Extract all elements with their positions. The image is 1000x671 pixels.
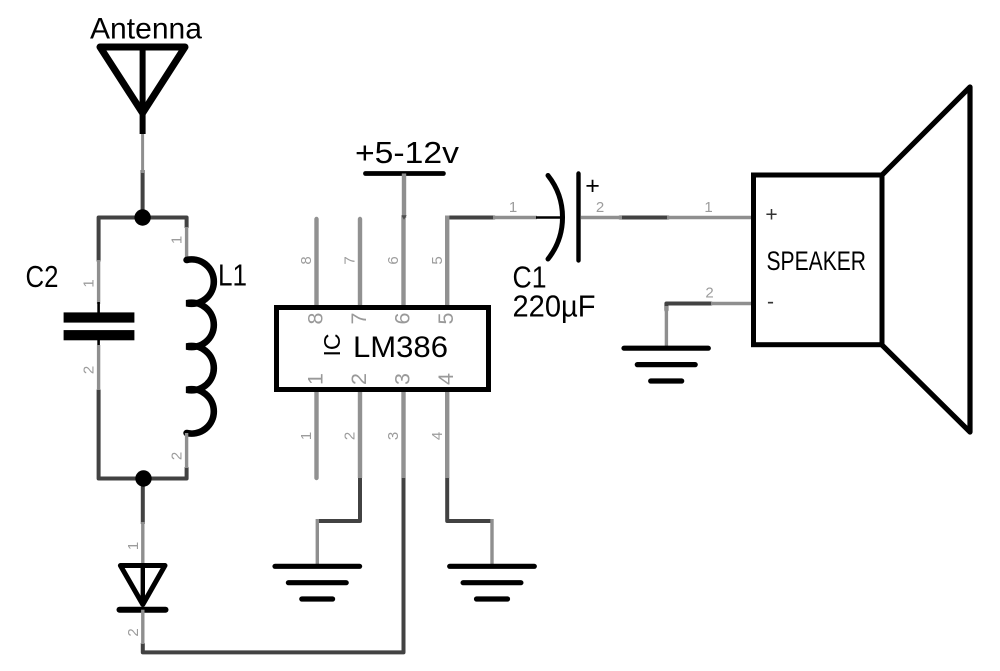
wire bottom bus (C2 bottom, junction, L1 bottom) (99, 390, 187, 479)
wire junction to diode (141, 479, 145, 525)
IC U1 LM386 (277, 216, 489, 479)
speaker LS1 (667, 87, 970, 432)
svg-text:4: 4 (434, 373, 458, 385)
pin 2 leg (141, 610, 144, 644)
wire IC pin5 to C1 (447, 216, 494, 220)
svg-text:1: 1 (704, 199, 712, 216)
pin 2 leg (711, 302, 753, 305)
curved plate (548, 176, 563, 260)
svg-text:3: 3 (390, 373, 414, 385)
svg-text:2: 2 (342, 432, 359, 440)
svg-text:8: 8 (303, 312, 327, 324)
diode D1 (120, 522, 166, 644)
node top junction (134, 209, 150, 225)
wire speaker minus to ground G3 (666, 304, 711, 311)
horn (882, 87, 970, 432)
pin 2 leg (185, 433, 188, 468)
svg-text:L1: L1 (218, 258, 247, 293)
wire IC pin2 to ground G1 (317, 477, 360, 521)
svg-text:2: 2 (125, 628, 142, 636)
svg-text:1: 1 (303, 373, 327, 385)
node bottom junction (135, 470, 151, 486)
pin 1 leg (493, 216, 537, 219)
IC body (277, 308, 489, 390)
svg-text:4: 4 (429, 432, 446, 440)
svg-text:1: 1 (298, 432, 315, 440)
svg-text:6: 6 (385, 256, 402, 264)
svg-text:8: 8 (298, 256, 315, 264)
pin 1 stub (314, 392, 318, 478)
ground G3 (624, 306, 708, 381)
svg-text:1: 1 (125, 542, 142, 550)
svg-text:-: - (767, 291, 774, 314)
ground G1 (275, 519, 360, 599)
svg-text:2: 2 (596, 199, 604, 216)
body (754, 175, 883, 345)
svg-text:IC: IC (319, 334, 345, 357)
svg-text:7: 7 (342, 256, 359, 264)
capacitor C1 220uF (493, 172, 622, 324)
svg-text:2: 2 (81, 366, 98, 374)
svg-text:2: 2 (347, 373, 371, 385)
svg-text:+5-12v: +5-12v (355, 135, 460, 170)
inductor L1 (169, 227, 247, 468)
svg-text:1: 1 (81, 279, 98, 287)
svg-text:Antenna: Antenna (90, 13, 202, 46)
pin 4 stub (445, 392, 449, 478)
svg-text:LM386: LM386 (353, 331, 448, 364)
pin 5 stub (445, 216, 449, 307)
wire C1 to speaker plus (620, 216, 668, 220)
straight plate (576, 174, 580, 261)
svg-text:7: 7 (347, 313, 371, 325)
svg-text:SPEAKER: SPEAKER (767, 246, 867, 276)
svg-text:220µF: 220µF (513, 289, 596, 324)
pin 2 leg (581, 216, 623, 219)
ground G2 (450, 519, 535, 599)
svg-text:C2: C2 (26, 259, 59, 294)
pin 8 stub (314, 219, 318, 306)
svg-text:+: + (765, 204, 777, 227)
capacitor C2 (26, 259, 135, 390)
svg-text:1: 1 (169, 236, 186, 244)
power +5-12v (355, 135, 460, 220)
pin 1 leg (185, 227, 188, 261)
svg-text:2: 2 (705, 284, 713, 301)
wire diode bottom to IC pin3 (143, 477, 404, 652)
svg-text:5: 5 (434, 312, 458, 324)
pin 2 stub (358, 392, 362, 478)
wire antenna to top junction (141, 170, 145, 215)
svg-text:3: 3 (385, 432, 402, 440)
pin 3 stub (401, 392, 405, 478)
wire IC pin4 to ground G2 (447, 477, 492, 521)
svg-text:5: 5 (429, 256, 446, 264)
svg-text:+: + (585, 172, 600, 200)
antenna ANT1 (90, 13, 202, 174)
svg-text:2: 2 (169, 452, 186, 460)
wire top bus (junction to C2 and L1) (99, 218, 187, 262)
svg-text:1: 1 (509, 199, 517, 216)
pin 1 leg (141, 522, 144, 566)
pin 2 leg (97, 345, 100, 390)
pin 1 leg (667, 216, 753, 219)
svg-text:6: 6 (390, 312, 414, 324)
pin 6 stub (401, 216, 405, 306)
pin 1 leg (97, 260, 100, 304)
pin 7 stub (358, 219, 362, 306)
